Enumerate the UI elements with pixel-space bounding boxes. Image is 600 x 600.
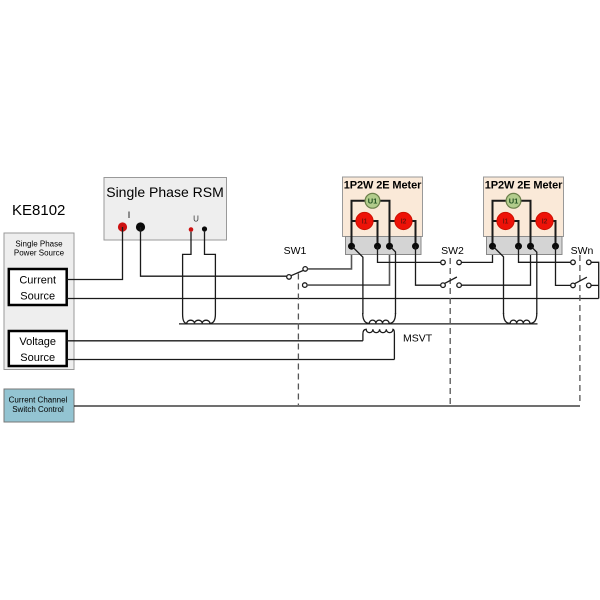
wire: SW2 bottom-right to meter2 T3	[461, 246, 530, 285]
svg-text:SW2: SW2	[441, 245, 464, 257]
SW1 dashed control line	[297, 274, 299, 406]
wire: switch control line	[74, 405, 580, 407]
svg-text:U: U	[193, 215, 199, 224]
wire: voltage source bottom to MSVT secondary right	[67, 359, 395, 361]
wire: SWn bottom-right stub	[591, 284, 599, 286]
MSVT primary winding	[363, 313, 396, 323]
SWn bottom-right contact	[587, 283, 592, 288]
SW1 top throw contact	[303, 267, 308, 272]
svg-text:I2: I2	[542, 219, 548, 226]
meter2 U1 element	[506, 193, 521, 208]
SWn lever (open)	[574, 277, 587, 284]
SW2 top-right contact	[457, 260, 462, 265]
wire: meter1 T1 to MSVT primary left	[352, 247, 363, 315]
SW1 bottom throw contact	[303, 283, 308, 288]
SWn dashed control line	[579, 255, 581, 405]
wire: current source to RSM I+	[67, 227, 123, 280]
wire: SWn right side return	[591, 262, 599, 298]
svg-text:Source: Source	[20, 291, 55, 303]
meter1 U1 element	[365, 193, 380, 208]
meter1 I2 element	[395, 212, 412, 229]
meter1 internal wiring	[352, 201, 416, 246]
RSM voltage transformer primary leads	[183, 232, 216, 314]
svg-text:1P2W 2E Meter: 1P2W 2E Meter	[344, 180, 422, 192]
meter 2	[484, 177, 564, 255]
wire: SW1 top throw to meter1 T1	[308, 246, 352, 269]
svg-text:Voltage: Voltage	[19, 336, 56, 348]
RSM box U1	[104, 178, 227, 241]
wire: current return bus	[67, 298, 599, 300]
svg-text:SWn: SWn	[571, 245, 594, 257]
svg-text:I1: I1	[362, 219, 368, 226]
wire: meter2 T3 to transformer2 primary right	[531, 247, 537, 314]
RSM terminal U- (black)	[202, 226, 207, 231]
wire: meter2 T2 to SWn top-left	[519, 246, 571, 262]
SW2 dashed control line	[449, 258, 451, 405]
svg-text:KE8102: KE8102	[12, 202, 65, 219]
RSM terminal I+ (red)	[118, 222, 127, 231]
RSM terminal I- (black)	[136, 222, 145, 231]
meter2 I2 element	[536, 212, 553, 229]
svg-text:Current Channel: Current Channel	[9, 396, 68, 405]
svg-text:Switch Control: Switch Control	[12, 405, 64, 414]
wire: RSM I- down and right to SW1 common	[141, 227, 287, 276]
svg-text:U1: U1	[368, 196, 378, 205]
meter2 internal wiring	[493, 201, 556, 246]
wire: meter1 T4 to SW2 bottom-left	[416, 246, 441, 285]
svg-text:Power Source: Power Source	[14, 249, 65, 258]
svg-text:I: I	[128, 210, 131, 220]
svg-text:I2: I2	[401, 219, 407, 226]
svg-text:Source: Source	[20, 352, 55, 364]
SW1 common contact	[287, 275, 292, 280]
SWn bottom-left contact	[571, 283, 576, 288]
wire: common voltage line under windings	[179, 323, 538, 325]
svg-text:MSVT: MSVT	[403, 333, 433, 345]
meter 1	[343, 177, 423, 255]
SW1 lever (closed to top)	[291, 270, 303, 275]
transformer2 primary winding	[504, 313, 537, 323]
wire: meter1 T2 to SW2 top-left	[378, 246, 441, 262]
MSVT secondary winding	[363, 329, 395, 359]
wire: meter2 T1 to transformer2 primary left	[493, 247, 503, 315]
meter1 terminals	[348, 243, 419, 250]
current source box	[9, 269, 67, 305]
svg-text:U1: U1	[509, 196, 519, 205]
RSM terminal U+ (red)	[189, 227, 194, 232]
svg-text:Single Phase RSM: Single Phase RSM	[106, 184, 224, 200]
wire: meter1 T3 to MSVT primary right	[390, 247, 395, 314]
SWn top-left contact	[571, 260, 576, 265]
RSM transformer winding	[183, 314, 216, 323]
SWn top-right contact	[587, 260, 592, 265]
svg-text:Current: Current	[19, 275, 56, 287]
SW2 lever (open)	[444, 277, 457, 284]
svg-text:Single Phase: Single Phase	[15, 240, 63, 249]
svg-text:SW1: SW1	[284, 245, 307, 257]
SW2 bottom-left contact	[441, 283, 446, 288]
svg-text:I1: I1	[503, 219, 509, 226]
current channel switch control box	[4, 389, 74, 422]
voltage source box	[9, 331, 67, 366]
meter1 I1 element	[356, 212, 373, 229]
wire: SW1 bottom throw to meter1 T3	[307, 246, 389, 285]
wire: voltage source top to MSVT secondary left	[67, 340, 363, 342]
wire: SW2 top-right to meter2 T1	[461, 246, 492, 262]
power source group box	[4, 233, 74, 370]
meter2 terminals	[489, 243, 559, 250]
svg-text:1P2W 2E Meter: 1P2W 2E Meter	[485, 180, 563, 192]
meter2 I1 element	[497, 212, 514, 229]
wire: meter2 T4 to SWn bottom-left	[556, 246, 571, 285]
SW2 bottom-right contact	[457, 283, 462, 288]
SW2 top-left contact	[441, 260, 446, 265]
